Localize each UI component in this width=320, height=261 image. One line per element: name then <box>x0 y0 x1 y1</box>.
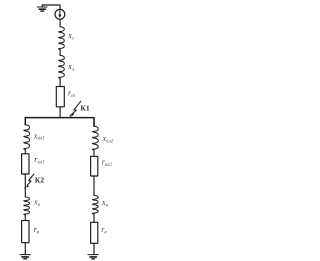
wire (Xc to Xt) <box>59 49 61 55</box>
wire (Xvl2 to rvl2) <box>93 150 95 156</box>
wire (ground to source) <box>42 5 60 10</box>
wire (Xvl1 to rvl1) <box>24 149 26 153</box>
inductor Xc <box>59 27 65 50</box>
wire (Xv to rv right) <box>93 214 95 222</box>
resistor rvl1 <box>22 154 29 174</box>
inductor Xt <box>59 55 65 78</box>
wire (rvl1 down) <box>24 174 26 197</box>
inductor Xv (left) <box>24 197 30 215</box>
ground (bottom right) <box>88 255 99 259</box>
inductor Xvl1 (left) <box>24 125 30 150</box>
wire (Xv to rv left) <box>24 215 26 221</box>
resistor rt <box>56 87 64 107</box>
wire (rt to bus) <box>59 107 61 118</box>
fault arrow K2 <box>24 174 34 189</box>
wire (rv to ground left) <box>24 243 26 255</box>
ground (top, system neutral) <box>37 5 47 11</box>
fault arrow K1 <box>69 101 80 117</box>
wire (rv to ground right) <box>93 243 95 254</box>
bus wire with branch corners <box>25 118 94 127</box>
current source (circle with down arrow) <box>55 9 65 19</box>
svg-text:К2: К2 <box>35 177 45 185</box>
resistor rv right <box>91 222 98 243</box>
wire (rvl2 to Xv right) <box>93 176 95 196</box>
wire (bus to Xvl2) <box>93 118 95 127</box>
wire (Xt to rt) <box>59 78 61 86</box>
resistor rv left <box>22 221 29 243</box>
svg-text:К1: К1 <box>81 105 91 113</box>
ground (bottom left) <box>20 255 31 259</box>
inductor Xv (right) <box>92 196 98 214</box>
resistor rvl2 <box>91 156 98 176</box>
inductor Xvl2 (right) <box>92 126 98 150</box>
wire (source to Xc) <box>59 19 61 27</box>
